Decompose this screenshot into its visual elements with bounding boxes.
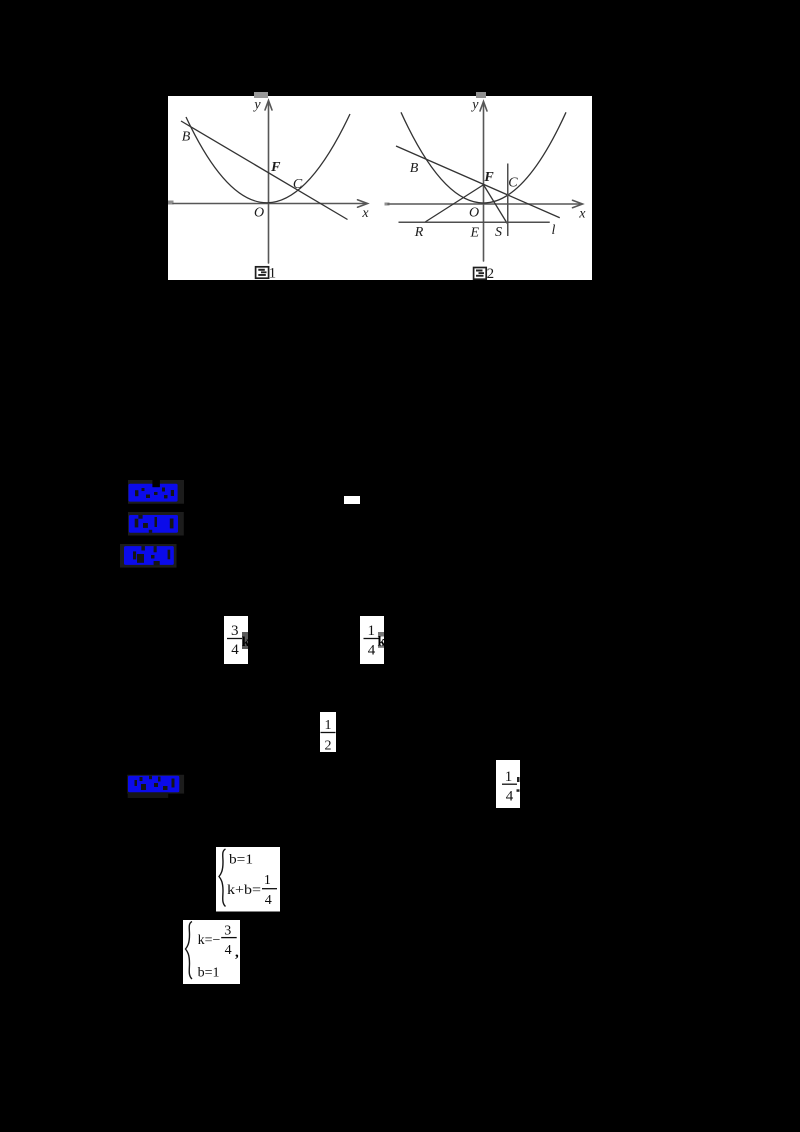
graph2 parabola xyxy=(401,112,566,203)
svg-text:1: 1 xyxy=(367,623,375,639)
svg-text:1: 1 xyxy=(325,718,332,733)
graph1 y-axis xyxy=(268,102,270,263)
graph2 horizontal line l (directrix) xyxy=(399,221,550,223)
blue tag 【解答】 second xyxy=(127,774,187,800)
figure panel (white box with 图1 and 图2) xyxy=(168,96,592,280)
graph1 parabola xyxy=(186,114,350,203)
svg-text:F: F xyxy=(270,160,281,175)
svg-text:x: x xyxy=(578,206,586,221)
fraction bar xyxy=(364,638,379,640)
brace xyxy=(219,849,226,907)
equation system { b=1 ; k+b=1/4 } xyxy=(216,847,280,912)
fraction 1/4 after 解答 xyxy=(496,760,520,808)
svg-text:O: O xyxy=(254,206,264,221)
svg-text:,: , xyxy=(235,945,239,961)
graph2 vertical line through C and S xyxy=(507,164,509,237)
fraction bar xyxy=(227,638,242,640)
svg-text:k+b=: k+b= xyxy=(227,883,261,898)
graph2 y-axis xyxy=(483,103,485,261)
graph2 y-axis arrowhead xyxy=(480,102,487,112)
caption 图1 glyph box xyxy=(256,267,269,278)
svg-text:B: B xyxy=(182,130,191,145)
svg-text:E: E xyxy=(469,226,479,241)
gray stub right of 图1 arrow xyxy=(385,203,390,206)
graph2 x-axis arrowhead xyxy=(573,200,583,207)
graph2 segment F to R xyxy=(425,185,484,223)
svg-text:C: C xyxy=(508,176,518,191)
svg-text:S: S xyxy=(495,225,502,240)
svg-text:b=1: b=1 xyxy=(198,966,220,981)
svg-text:R: R xyxy=(414,225,424,240)
blue tag 【解答】 xyxy=(120,544,178,569)
gray smudge above y label of 图1 xyxy=(254,92,268,98)
gray stub at left edge of x-axis 图1 xyxy=(168,201,174,205)
graph1 y-axis arrowhead xyxy=(265,101,272,111)
svg-text:b=1: b=1 xyxy=(229,853,253,868)
svg-text:k=−: k=− xyxy=(198,933,221,948)
svg-text:2: 2 xyxy=(487,266,495,280)
graph2 x-axis xyxy=(388,203,580,205)
svg-text:O: O xyxy=(469,206,479,221)
gray smudge above y label of 图2 xyxy=(476,92,486,98)
fraction 1/4 with partial k xyxy=(360,616,385,664)
graph1 secant line through B F C xyxy=(181,121,348,220)
graph2 segment F to S xyxy=(484,185,508,224)
caption 图2 glyph box xyxy=(474,268,487,280)
svg-text:1: 1 xyxy=(264,873,271,888)
equation system { k=-3/4 ; b=1 } xyxy=(183,920,241,984)
white dash (highlighted minus) xyxy=(344,496,360,504)
svg-text:y: y xyxy=(470,98,479,113)
svg-text:k: k xyxy=(378,635,386,650)
svg-text:y: y xyxy=(252,97,261,112)
fraction bar xyxy=(502,783,517,785)
svg-text:4: 4 xyxy=(225,943,232,958)
svg-text:2: 2 xyxy=(325,739,332,753)
graph2 secant line through B F C xyxy=(396,146,560,218)
brace xyxy=(186,922,193,980)
svg-text:1: 1 xyxy=(269,266,277,281)
gray block beside k xyxy=(242,632,248,649)
svg-text:F: F xyxy=(483,170,494,185)
graph1 x-axis xyxy=(173,203,365,205)
svg-text:C: C xyxy=(293,177,303,192)
svg-text:4: 4 xyxy=(368,643,376,659)
graph1 x-axis arrowhead xyxy=(358,200,368,207)
svg-text:4: 4 xyxy=(231,642,239,658)
svg-text:x: x xyxy=(361,206,369,221)
svg-text:k: k xyxy=(242,635,249,650)
fraction 3/4 with partial k xyxy=(224,616,249,664)
svg-text:4: 4 xyxy=(265,893,272,908)
svg-text:4: 4 xyxy=(506,789,514,805)
svg-text:3: 3 xyxy=(224,923,231,938)
svg-text:l: l xyxy=(552,223,556,238)
fraction 1/2 xyxy=(320,712,336,752)
blue tag 【分析】 xyxy=(128,512,186,537)
svg-text:1: 1 xyxy=(505,769,513,785)
fraction bar xyxy=(321,732,336,734)
svg-text:B: B xyxy=(410,161,419,176)
gray blocks beside k xyxy=(378,632,384,637)
svg-text:3: 3 xyxy=(231,623,239,639)
partial brace marks at right edge xyxy=(517,777,520,782)
blue tag 【考点】 xyxy=(128,480,186,505)
